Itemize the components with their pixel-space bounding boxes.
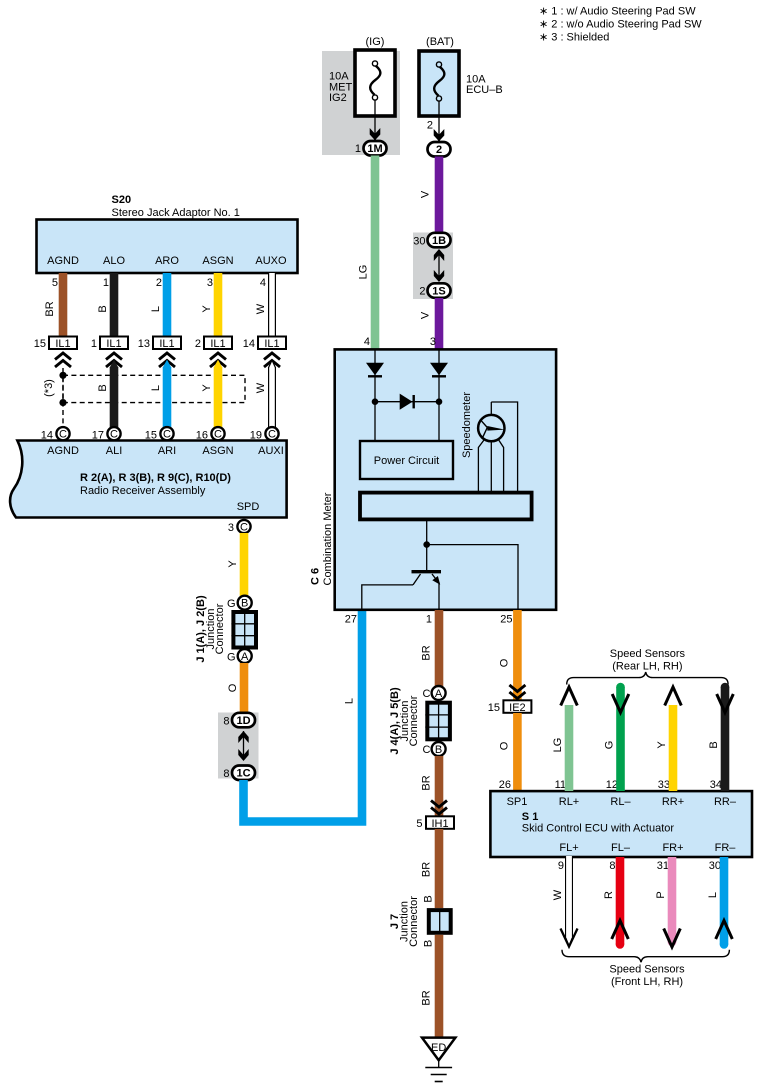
svg-text:Speedometer: Speedometer [461, 392, 473, 458]
wire BR from IH1 to J7 [435, 829, 444, 908]
wire LG from 1M to combination meter pin 4 [371, 156, 380, 351]
fuse F1 10A MET IG2 [329, 50, 395, 116]
internal wire base to pin 27 [362, 585, 413, 609]
fuse F2 10A ECU-B [419, 51, 503, 116]
svg-text:Stereo Jack Adaptor No. 1: Stereo Jack Adaptor No. 1 [112, 207, 240, 219]
diode D1 (pin 4) [366, 363, 384, 377]
junction dot [423, 541, 430, 548]
wire G to rear speed sensor LH- [604, 683, 629, 791]
svg-text:RL+: RL+ [559, 796, 580, 808]
svg-text:9: 9 [558, 860, 564, 872]
svg-text:27: 27 [345, 614, 357, 626]
svg-text:1D: 1D [236, 715, 250, 727]
wire O from junction connector to 1D [240, 663, 249, 713]
svg-text:ASGN: ASGN [202, 255, 233, 267]
wire W from IL1 to radio [255, 360, 275, 428]
svg-text:ASGN: ASGN [202, 445, 233, 457]
svg-text:Speed Sensors: Speed Sensors [609, 964, 685, 976]
svg-text:BR: BR [44, 301, 56, 316]
shield drain dashed wire [62, 368, 64, 427]
svg-text:ALO: ALO [103, 255, 125, 267]
ground symbol [425, 1060, 452, 1081]
svg-text:L: L [150, 385, 162, 391]
svg-text:∗ 2 : w/o Audio Steering Pad S: ∗ 2 : w/o Audio Steering Pad SW [539, 18, 702, 30]
svg-text:Combination Meter: Combination Meter [322, 492, 334, 585]
junction dot left [372, 398, 379, 405]
svg-text:1: 1 [91, 338, 97, 350]
svg-text:BR: BR [421, 775, 433, 790]
wire Y to rear speed sensor RH+ [656, 687, 681, 791]
svg-text:C: C [214, 429, 222, 441]
svg-text:BR: BR [421, 990, 433, 1005]
wire W to front speed sensor LH+ [552, 856, 578, 947]
brace rear speed sensors [567, 672, 728, 685]
component S1 Skid Control ECU with Actuator box [490, 791, 752, 857]
wire O from IE2 to S1 pin 26 [513, 713, 522, 791]
internal wire from bus to transistor [426, 519, 428, 570]
svg-text:1: 1 [426, 614, 432, 626]
svg-text:2: 2 [419, 286, 425, 298]
svg-text:∗ 1 : w/ Audio Steering Pad SW: ∗ 1 : w/ Audio Steering Pad SW [539, 5, 696, 17]
svg-text:BR: BR [421, 645, 433, 660]
wire B from IL1 to radio [110, 367, 119, 428]
svg-text:1B: 1B [432, 235, 446, 247]
wire L from S20 ARO to IL1 [163, 273, 172, 337]
brace front speed sensors [562, 950, 729, 963]
svg-text:ECU–B: ECU–B [466, 84, 503, 96]
svg-text:RR+: RR+ [662, 796, 684, 808]
component R2/R3/R9/R10 Radio Receiver Assembly box (torn left edge) [10, 441, 287, 518]
svg-text:Y: Y [227, 560, 239, 568]
svg-text:26: 26 [499, 779, 511, 791]
wire BR from J4/J5 to IH1 [435, 756, 444, 816]
svg-text:ALI: ALI [106, 445, 123, 457]
component S20 Stereo Jack Adaptor No. 1 box [37, 220, 298, 274]
svg-text:B: B [241, 598, 248, 610]
gray highlight box behind 1D/1C [218, 713, 259, 779]
svg-text:3: 3 [207, 277, 213, 289]
svg-text:2: 2 [195, 338, 201, 350]
svg-text:31: 31 [657, 860, 669, 872]
internal wire branch to pin 25 [427, 545, 518, 609]
svg-text:IL1: IL1 [159, 338, 174, 350]
ground ED triangle [422, 1038, 455, 1061]
svg-text:2: 2 [436, 144, 442, 156]
svg-text:R: R [603, 891, 615, 899]
wire from fuse F1 to connector 1M [374, 100, 376, 143]
svg-text:ARO: ARO [155, 255, 179, 267]
svg-text:V: V [420, 190, 432, 198]
svg-text:C 6: C 6 [310, 568, 322, 585]
wire BR from S20 AGND to IL1 [59, 273, 68, 337]
svg-text:R 2(A), R 3(B), R 9(C), R10(D): R 2(A), R 3(B), R 9(C), R10(D) [80, 472, 231, 484]
svg-text:15: 15 [34, 338, 46, 350]
svg-text:AUXI: AUXI [258, 445, 284, 457]
svg-text:LG: LG [552, 738, 564, 753]
svg-text:12: 12 [606, 779, 618, 791]
svg-text:15: 15 [488, 702, 500, 714]
meter internal bus bar [360, 493, 532, 520]
svg-text:B: B [423, 895, 435, 902]
svg-text:B: B [97, 305, 109, 312]
svg-text:(Rear LH, RH): (Rear LH, RH) [612, 661, 682, 673]
svg-text:Y: Y [201, 305, 213, 313]
svg-text:1C: 1C [236, 768, 250, 780]
double arrow between 1D and 1C [243, 731, 245, 760]
svg-text:LG: LG [358, 265, 370, 280]
svg-text:FR–: FR– [715, 842, 737, 854]
svg-text:W: W [255, 382, 267, 393]
svg-text:11: 11 [555, 779, 566, 791]
svg-text:14: 14 [243, 338, 255, 350]
wire Y from IL1 to radio [214, 367, 223, 428]
shield dashed box (*3) [63, 375, 245, 402]
svg-text:C: C [240, 521, 248, 533]
svg-text:ARI: ARI [158, 445, 176, 457]
svg-text:AUXO: AUXO [255, 255, 287, 267]
wire B to rear speed sensor RH- [708, 683, 733, 791]
svg-text:O: O [499, 658, 511, 667]
svg-text:V: V [420, 311, 432, 319]
svg-text:B: B [435, 744, 442, 756]
svg-text:3: 3 [430, 336, 436, 348]
svg-text:W: W [255, 303, 267, 314]
svg-text:Speed Sensors: Speed Sensors [610, 648, 686, 660]
svg-text:B: B [423, 940, 435, 947]
svg-text:IL1: IL1 [210, 338, 225, 350]
speedometer gauge symbol [478, 402, 518, 493]
svg-text:BR: BR [421, 862, 433, 877]
svg-text:30: 30 [709, 860, 721, 872]
internal wire emitter to pin 1 [438, 583, 440, 610]
wire L from IL1 to radio [163, 367, 172, 428]
svg-text:8: 8 [609, 860, 615, 872]
svg-text:A: A [241, 651, 249, 663]
svg-text:SPD: SPD [237, 501, 260, 513]
svg-text:C: C [163, 429, 171, 441]
svg-text:C: C [268, 429, 276, 441]
svg-text:S 1: S 1 [522, 811, 539, 823]
svg-text:(Front LH, RH): (Front LH, RH) [611, 976, 683, 988]
gray highlight box behind fuse MET IG2 [322, 51, 400, 155]
svg-text:FL+: FL+ [559, 842, 578, 854]
wire Y from S20 ASGN to IL1 [214, 273, 223, 337]
svg-text:C: C [59, 429, 67, 441]
svg-text:IG2: IG2 [329, 92, 347, 104]
svg-text:1: 1 [355, 143, 361, 155]
Power Circuit box [360, 441, 453, 479]
svg-text:L: L [150, 306, 162, 312]
svg-text:C: C [423, 688, 431, 700]
wire V from 1S to combination meter pin 3 [435, 298, 444, 350]
svg-text:L: L [707, 892, 719, 898]
svg-text:33: 33 [658, 779, 670, 791]
svg-text:SP1: SP1 [507, 796, 528, 808]
diode D2 (pin 3) [430, 363, 448, 377]
junction connector J7 [429, 910, 451, 933]
svg-text:AGND: AGND [47, 445, 79, 457]
svg-text:IH1: IH1 [431, 818, 448, 830]
svg-text:1: 1 [103, 277, 109, 289]
svg-text:P: P [655, 891, 667, 898]
svg-text:Y: Y [656, 741, 668, 749]
wire O from meter pin 25 to IE2 [513, 610, 522, 700]
svg-text:2: 2 [427, 120, 433, 132]
chevrons below IL1 connectors [55, 353, 71, 367]
transistor Q1 [412, 572, 442, 585]
svg-text:4: 4 [364, 336, 370, 348]
wire BR from meter pin 1 to junction J4/J5 [435, 610, 444, 686]
svg-text:8: 8 [223, 716, 229, 728]
svg-text:C: C [423, 744, 431, 756]
svg-text:∗ 3 : Shielded: ∗ 3 : Shielded [539, 31, 609, 43]
svg-text:O: O [227, 683, 239, 692]
svg-text:B: B [97, 384, 109, 391]
diode D3 (between branches) [400, 394, 414, 410]
svg-text:O: O [499, 741, 511, 750]
svg-text:Connector: Connector [408, 695, 420, 746]
chevrons above IE2 [509, 685, 525, 699]
svg-text:FL–: FL– [611, 842, 631, 854]
wire L to front speed sensor RH- [707, 857, 732, 949]
meter internal wire from pin 4 [374, 350, 376, 441]
svg-text:1M: 1M [367, 143, 382, 155]
svg-text:RL–: RL– [610, 796, 631, 808]
svg-text:B: B [708, 741, 720, 748]
svg-text:4: 4 [260, 277, 266, 289]
svg-text:C: C [110, 429, 118, 441]
svg-text:A: A [435, 688, 443, 700]
wire B from S20 ALO to IL1 [110, 273, 119, 337]
shield junction dot bottom [59, 399, 66, 406]
svg-text:25: 25 [500, 614, 512, 626]
svg-text:Radio Receiver Assembly: Radio Receiver Assembly [80, 485, 206, 497]
connector 2 [428, 142, 451, 157]
svg-text:13: 13 [138, 338, 150, 350]
svg-text:Power Circuit: Power Circuit [374, 455, 439, 467]
svg-text:8: 8 [223, 768, 229, 780]
svg-text:30: 30 [413, 236, 425, 248]
wire W from S20 AUXO to IL1 [255, 273, 272, 337]
svg-text:(*3): (*3) [43, 379, 55, 397]
wire LG to rear speed sensor LH+ [552, 687, 577, 791]
svg-text:IL1: IL1 [264, 338, 279, 350]
svg-text:FR+: FR+ [662, 842, 683, 854]
svg-text:34: 34 [710, 779, 722, 791]
chevrons above IH1 [431, 801, 447, 815]
meter internal wire from pin 3 [438, 350, 440, 441]
svg-text:G: G [227, 652, 236, 664]
svg-text:5: 5 [52, 277, 58, 289]
svg-text:(IG): (IG) [366, 36, 385, 48]
wire from fuse F2 to connector 2 [438, 101, 440, 144]
svg-text:3: 3 [228, 522, 234, 534]
svg-text:Connector: Connector [408, 896, 420, 947]
svg-text:G: G [604, 741, 616, 750]
wire V from 2 to connector 1B [435, 157, 444, 235]
svg-text:5: 5 [416, 818, 422, 830]
svg-text:L: L [344, 698, 356, 704]
svg-text:G: G [227, 598, 236, 610]
connector 1M [364, 141, 387, 156]
svg-text:(BAT): (BAT) [426, 36, 454, 48]
svg-text:Skid Control ECU with Actuator: Skid Control ECU with Actuator [522, 823, 675, 835]
junction connector J1(A) J2(B) [231, 612, 256, 648]
wire Y from radio SPD to junction connector J1/J2 [240, 533, 249, 596]
svg-text:IE2: IE2 [509, 702, 526, 714]
wire R to front speed sensor LH- [603, 857, 628, 949]
internal wire joining branches [375, 401, 439, 403]
wire BR from J7 to ground ED [435, 935, 444, 1038]
svg-text:2: 2 [156, 277, 162, 289]
shield junction dot top [59, 372, 66, 379]
svg-text:RR–: RR– [714, 796, 737, 808]
svg-text:IL1: IL1 [55, 338, 70, 350]
component C6 Combination Meter box [335, 349, 556, 609]
svg-text:Connector: Connector [214, 603, 226, 654]
svg-text:1S: 1S [432, 286, 445, 298]
gray highlight box behind 1B/1S [413, 233, 453, 300]
wire L elbow from 1C to meter pin 27 [244, 610, 363, 822]
double arrow between 1B and 1S [438, 251, 440, 280]
svg-text:W: W [552, 889, 564, 900]
svg-text:S20: S20 [112, 194, 132, 206]
svg-text:IL1: IL1 [106, 338, 121, 350]
junction dot right [436, 398, 443, 405]
svg-text:ED: ED [431, 1042, 446, 1054]
junction connector J4(A) J5(B) [425, 703, 450, 740]
svg-text:AGND: AGND [47, 255, 79, 267]
svg-text:Y: Y [201, 384, 213, 392]
wire P to front speed sensor RH+ [655, 857, 680, 947]
